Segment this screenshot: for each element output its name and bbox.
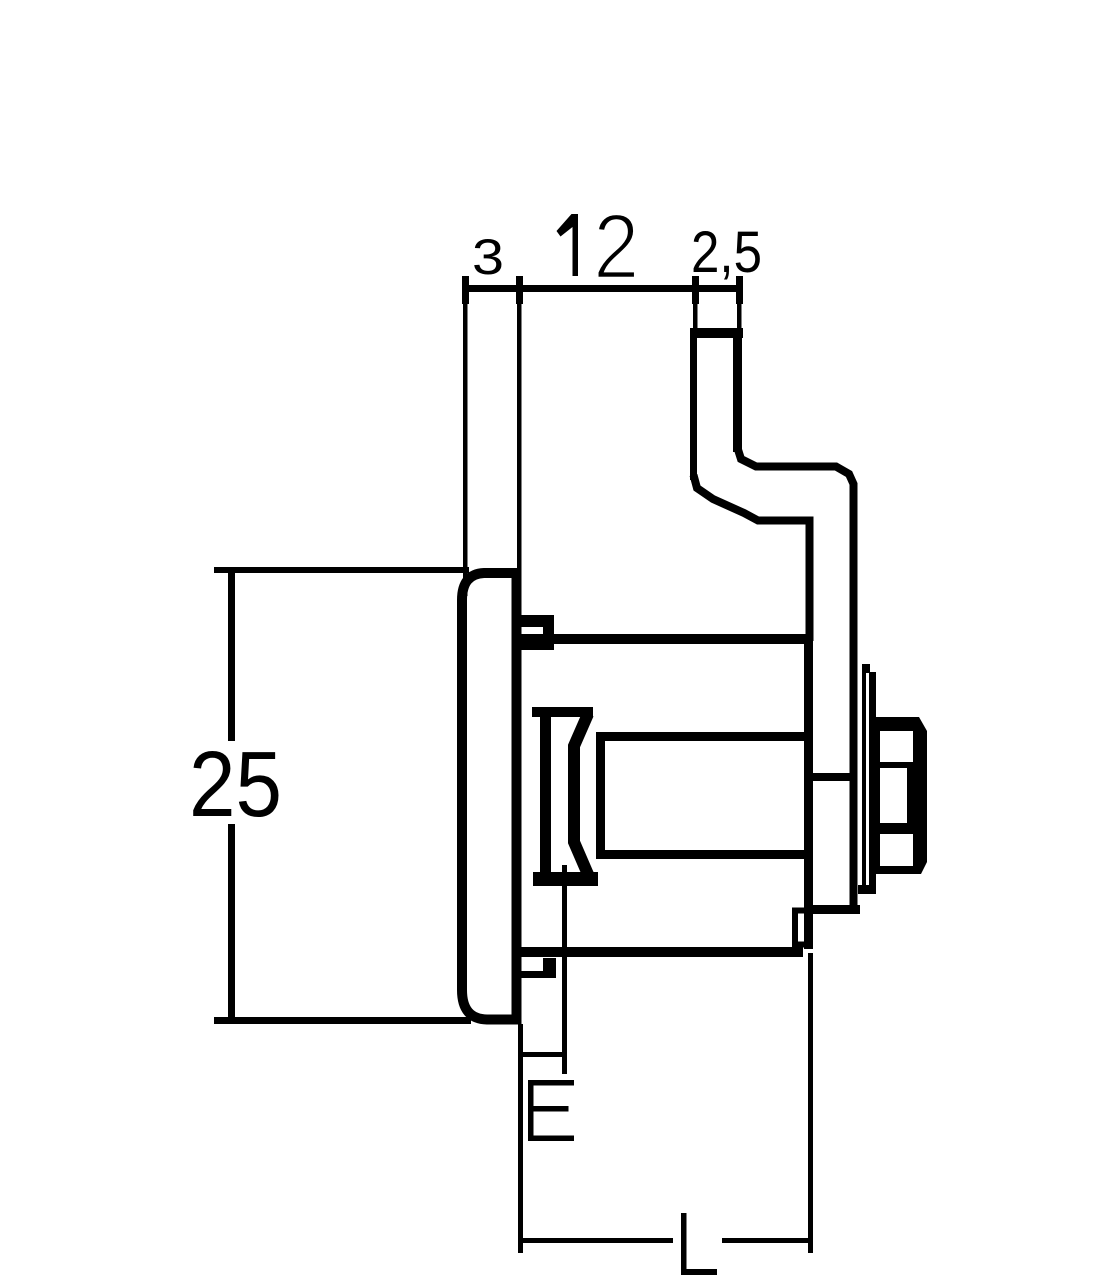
bottom-right notch of body [795, 911, 806, 945]
L dimension line right segment [722, 1238, 812, 1243]
right extension line (back of body) [808, 953, 813, 1253]
L dimension line left segment [519, 1238, 673, 1243]
flange (front bezel) [462, 569, 521, 1025]
washer bottom bar [858, 885, 876, 894]
cam outer bend [694, 475, 810, 641]
dim 25 bottom extension line [214, 1017, 471, 1024]
label L [681, 1213, 717, 1275]
dimension line top (3 / 12 / 2,5) [462, 285, 743, 292]
dim 25 vertical line lower segment [228, 824, 235, 1021]
key symbol bottom bar [533, 872, 598, 886]
extension line left of dim 3 tick [462, 276, 469, 304]
extension line left of dim 3 [463, 300, 468, 596]
label E [528, 1080, 574, 1141]
washer thin line [862, 665, 866, 894]
E dimension line [519, 1052, 565, 1057]
extension line between 3 and 12 [517, 300, 522, 572]
svg-text:2,5: 2,5 [691, 220, 762, 285]
bottom clip tab [521, 958, 556, 978]
label 12: digit 1 [557, 214, 579, 276]
E dimension right extension line [562, 865, 567, 1074]
cam top bar [690, 328, 743, 338]
extension line right of dim 2,5 [737, 300, 742, 340]
extension line left of dim 2,5 tick [692, 276, 699, 304]
extension line between 3 and 12 tick [516, 276, 523, 304]
body top edge [521, 634, 813, 644]
svg-text:25: 25 [189, 732, 282, 836]
left lower extension line (flange face) [518, 1024, 523, 1253]
key symbol top bar [532, 707, 593, 717]
hex nut (side view) [876, 717, 927, 874]
cam mount bottom bar [813, 905, 860, 914]
keyway rectangle (broach) [601, 737, 809, 855]
body bottom edge [521, 947, 803, 957]
dim 25 top extension line [214, 567, 469, 573]
svg-text:3: 3 [472, 229, 504, 285]
dim 25 vertical line upper segment [228, 569, 235, 741]
extension line left of dim 2,5 [693, 300, 698, 332]
cam outer left edge [690, 328, 697, 480]
extension line right of dim 2,5 tick [736, 276, 743, 304]
key symbol left post [540, 707, 551, 886]
cam mount middle bridge [804, 773, 857, 781]
key symbol concave right edge [574, 714, 590, 879]
washer thick line [869, 672, 876, 894]
cam inner bend [738, 448, 854, 910]
svg-text:2: 2 [593, 196, 639, 298]
cam inner right edge [733, 337, 742, 452]
top clip tab [521, 615, 554, 650]
washer top nub [862, 664, 870, 673]
body right edge [804, 634, 813, 949]
